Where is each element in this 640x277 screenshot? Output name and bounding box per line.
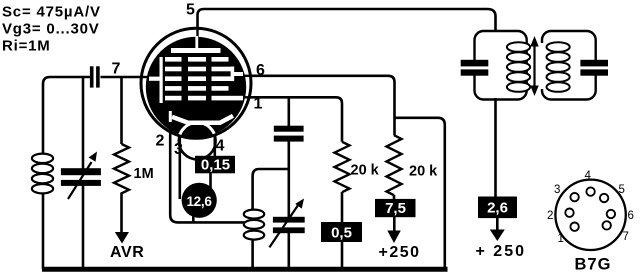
- svg-text:20 k: 20 k: [351, 163, 380, 179]
- svg-text:Sc= 475µA/V: Sc= 475µA/V: [2, 4, 101, 21]
- svg-text:+250: +250: [379, 244, 421, 261]
- svg-text:3: 3: [554, 184, 560, 196]
- svg-text:12,6: 12,6: [186, 194, 212, 209]
- svg-text:4: 4: [216, 138, 225, 155]
- svg-text:0,15: 0,15: [201, 157, 230, 174]
- svg-text:1: 1: [254, 96, 263, 113]
- svg-text:5: 5: [619, 184, 625, 196]
- svg-text:7,5: 7,5: [385, 200, 406, 217]
- svg-text:AVR: AVR: [110, 244, 144, 261]
- svg-text:2,6: 2,6: [487, 199, 508, 216]
- svg-text:0,5: 0,5: [331, 224, 352, 241]
- svg-text:Ri=1M: Ri=1M: [2, 38, 51, 55]
- svg-text:B7G: B7G: [575, 256, 612, 274]
- svg-text:5: 5: [186, 2, 195, 19]
- svg-text:2: 2: [156, 133, 165, 150]
- svg-text:+ 250: + 250: [476, 243, 526, 260]
- svg-text:3: 3: [174, 141, 183, 158]
- svg-text:20 k: 20 k: [409, 164, 438, 180]
- svg-text:7: 7: [112, 61, 121, 78]
- svg-text:Vg3= 0...30V: Vg3= 0...30V: [2, 21, 100, 38]
- svg-text:7: 7: [623, 231, 629, 243]
- svg-text:2: 2: [547, 210, 553, 222]
- svg-text:6: 6: [256, 62, 265, 79]
- svg-text:4: 4: [585, 170, 592, 182]
- svg-text:6: 6: [628, 210, 634, 222]
- svg-text:1: 1: [558, 233, 564, 245]
- svg-text:1M: 1M: [134, 166, 154, 182]
